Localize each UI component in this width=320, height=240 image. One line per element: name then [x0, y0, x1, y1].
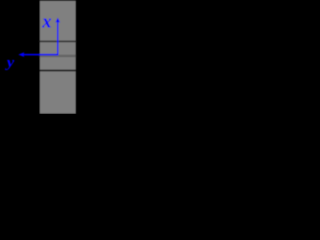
background: [0, 0, 154, 114]
segment line middle (soft band): [40, 55, 76, 57]
y axis arrowhead: [18, 52, 24, 57]
segment line lower: [40, 70, 76, 72]
segment line upper: [40, 40, 76, 42]
svg-text:y: y: [5, 55, 15, 71]
x axis arrowhead: [55, 18, 60, 23]
svg-text:x: x: [41, 12, 51, 33]
label x: [41, 12, 51, 33]
x axis shaft: [57, 22, 59, 56]
label y: [5, 55, 15, 71]
column body (gray bar): [39, 0, 76, 114]
y axis shaft: [23, 54, 57, 56]
